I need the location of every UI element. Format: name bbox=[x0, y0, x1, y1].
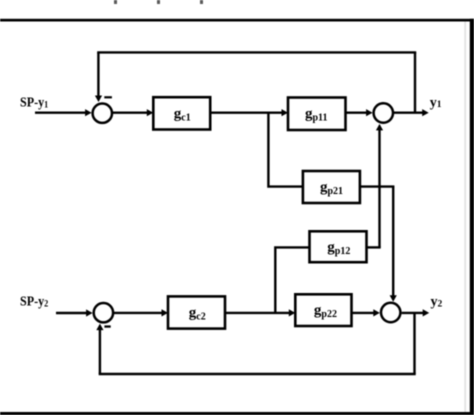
wire gp11 to summing junction S3 bbox=[346, 109, 373, 116]
wire branch down to gp21 bbox=[268, 113, 303, 187]
wire gp21 output to vertical cross line bbox=[360, 185, 395, 187]
frame top border bbox=[0, 19, 474, 22]
summing junction S1 bbox=[93, 104, 112, 123]
cropped caption descender mark 3 bbox=[200, 0, 203, 4]
summing junction S4 bbox=[381, 303, 400, 322]
node SP-y2 label bbox=[20, 295, 48, 310]
wire gp12 output to vertical bbox=[367, 246, 381, 248]
frame right border bbox=[470, 19, 474, 415]
block gp21 bbox=[303, 171, 360, 203]
node y1 label bbox=[430, 95, 442, 110]
block gp11 bbox=[288, 98, 346, 131]
wire S2 to controller gc2 bbox=[113, 309, 168, 316]
wire gc1 to gp11 with branch node bbox=[210, 109, 288, 116]
cropped caption descender mark 1 bbox=[114, 0, 117, 4]
wire feedback 1 vertical drop into S1 bbox=[95, 52, 102, 102]
wire feedback 2 tap vertical from y2 line bbox=[413, 313, 415, 374]
summing junction S3 bbox=[374, 103, 393, 122]
minus sign at S2 bbox=[104, 325, 110, 327]
frame bottom border bbox=[0, 412, 474, 415]
wire feedback 1 tap vertical from y1 line bbox=[414, 52, 416, 112]
block gp12 bbox=[310, 231, 367, 262]
wire S1 to controller gc1 bbox=[112, 109, 153, 116]
block gc2 bbox=[168, 296, 225, 328]
block gc1 bbox=[153, 97, 210, 129]
wire SP-y1 input to summing junction S1 bbox=[35, 109, 92, 116]
summing junction S2 bbox=[94, 303, 113, 322]
wire SP-y2 input to summing junction S2 bbox=[56, 309, 93, 316]
wire gp12 input from gc2 branch bbox=[275, 247, 309, 313]
cropped caption descender mark 2 bbox=[157, 0, 160, 4]
wire S3 to output y1 bbox=[394, 109, 429, 116]
wire feedback 2 bottom horizontal bbox=[99, 373, 416, 375]
minus sign at S1 bbox=[104, 96, 112, 98]
wire gp22 to summing junction S4 bbox=[352, 309, 380, 316]
node y2 label bbox=[431, 295, 443, 310]
wire gp12 vertical up into S3 bbox=[376, 124, 383, 247]
wire gc2 to gp22 with branch node bbox=[225, 309, 295, 316]
wire feedback 2 vertical up into S2 bbox=[96, 324, 103, 374]
wire gp21 vertical down into S4 bbox=[390, 187, 397, 302]
wire S4 to output y2 bbox=[402, 309, 430, 316]
frame faint inner right line bbox=[464, 22, 466, 413]
wire feedback 1 top horizontal bbox=[97, 51, 416, 53]
block gp22 bbox=[295, 294, 351, 326]
node SP-y1 label bbox=[20, 96, 48, 111]
